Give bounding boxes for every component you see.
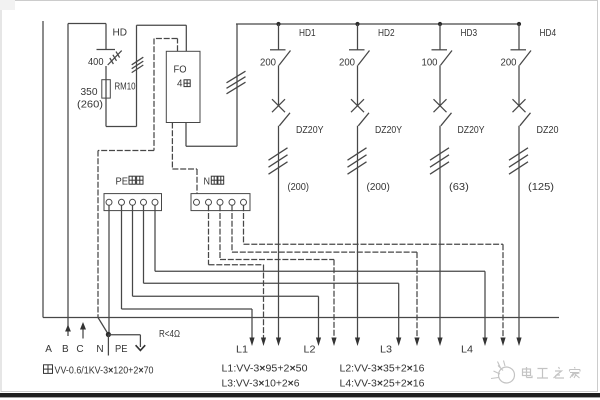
- svg-text:L1:VV-3×95+2×50: L1:VV-3×95+2×50: [222, 363, 308, 374]
- svg-text:4: 4: [177, 78, 183, 89]
- label A: [45, 344, 52, 355]
- terminal block PE busbar: [104, 194, 162, 211]
- svg-text:A: A: [45, 344, 52, 355]
- arrowhead incoming feed on phase riser: [65, 325, 71, 332]
- label DZ20Y: [296, 125, 324, 136]
- fuse RM10 body: [102, 80, 111, 98]
- wire PE conductor to L4: [155, 205, 485, 340]
- bottom separator bar: [0, 393, 600, 397]
- node bus junction HD3: [438, 22, 442, 26]
- svg-text:N: N: [204, 176, 211, 187]
- label 4#: [177, 78, 190, 89]
- svg-text:(125): (125): [528, 182, 554, 193]
- label DZ20: [537, 125, 559, 136]
- svg-text:L2:VV-3×35+2×16: L2:VV-3×35+2×16: [340, 363, 425, 374]
- label HD3: [461, 28, 478, 39]
- label L3: [380, 345, 392, 356]
- switch HD4 upper lead: [518, 24, 520, 50]
- arrowhead load phase L4: [516, 338, 521, 347]
- label 200 current: [339, 58, 355, 69]
- wire N conductor to L2: [220, 205, 334, 340]
- svg-text:(200): (200): [288, 182, 310, 193]
- 3-phase marks HD1 feeder: [269, 148, 288, 174]
- label (260): [77, 99, 103, 110]
- arrowhead N L2: [331, 338, 336, 347]
- ground arrowhead: [136, 345, 146, 350]
- meter box FO 4#: [166, 51, 200, 122]
- wire bottom horizontal run: [43, 317, 559, 319]
- wire HD2 load feeder: [357, 126, 359, 340]
- svg-text:(260): (260): [77, 99, 103, 110]
- svg-text:L2: L2: [304, 345, 316, 356]
- wire PE conductor to L3: [144, 205, 399, 340]
- svg-text:HD: HD: [113, 28, 128, 39]
- svg-text:N: N: [96, 344, 103, 355]
- switch HD1 fixed contact: [270, 49, 286, 51]
- wire N conductor to L1: [209, 205, 264, 340]
- 3-phase marks HD3 feeder: [430, 148, 449, 174]
- label HD2: [378, 28, 395, 39]
- wire neutral bond diagonal: [98, 318, 108, 335]
- arrowhead PE L1: [249, 338, 254, 347]
- breaker DZ20Y blade: [441, 113, 452, 126]
- label L3 cable spec: [222, 378, 300, 389]
- switch HD 400A blade: [108, 51, 122, 65]
- switch HD4 fixed contact: [511, 49, 527, 51]
- label 350: [81, 87, 98, 98]
- node N-PE bond: [106, 332, 111, 337]
- arrowhead PE L2: [316, 338, 321, 347]
- switch HD1 blade: [279, 51, 291, 66]
- label HD: [113, 28, 128, 39]
- svg-text:DZ20Y: DZ20Y: [375, 125, 402, 136]
- svg-text:L4: L4: [461, 345, 473, 356]
- svg-text:B: B: [62, 344, 69, 355]
- wire HD2 switch to breaker: [357, 65, 359, 106]
- arrowhead load phase L3: [437, 338, 442, 347]
- watermark text: [523, 367, 581, 378]
- node bus junction HD2: [355, 22, 359, 26]
- svg-text:FO: FO: [174, 65, 187, 76]
- wire riser to bus: [236, 24, 238, 146]
- label L1 cable spec: [222, 363, 308, 374]
- svg-text:DZ20Y: DZ20Y: [458, 125, 485, 136]
- switch HD 400A fixed contact: [97, 49, 116, 51]
- wire N conductor to L3: [232, 205, 417, 340]
- wire top link to FO: [137, 25, 187, 51]
- terminal block N busbar: [191, 194, 250, 211]
- label N busbar: [204, 176, 224, 187]
- wire bond to cable N: [107, 335, 109, 356]
- svg-text:PE: PE: [116, 176, 129, 187]
- switch HD 400A 3-pole ticks: [110, 52, 120, 64]
- wire fuse bottom to corner: [106, 98, 137, 126]
- breaker DZ20 contact cross: [513, 99, 526, 112]
- wire switch to fuse: [105, 66, 107, 80]
- wire neutral dashed down to bond: [97, 151, 99, 318]
- label RM10: [115, 82, 136, 93]
- switch HD 400A upper lead: [105, 24, 107, 50]
- svg-text:(200): (200): [367, 182, 390, 193]
- label (200) trip rating: [288, 182, 310, 193]
- svg-text:R<4Ω: R<4Ω: [159, 329, 180, 340]
- label (200) trip rating: [367, 182, 390, 193]
- arrow incoming supply direction: [80, 322, 86, 339]
- svg-text:C: C: [76, 344, 83, 355]
- arrowhead PE L3: [396, 338, 401, 347]
- wire riser to top link: [136, 25, 138, 126]
- svg-text:HD1: HD1: [299, 28, 316, 39]
- breaker DZ20Y blade: [358, 113, 369, 126]
- label incoming cable spec: [44, 365, 154, 377]
- arrowhead PE L4: [482, 338, 487, 347]
- switch HD2 upper lead: [357, 24, 359, 50]
- wire N conductor to L4: [244, 205, 504, 340]
- 3-phase marks HD4 feeder: [509, 148, 528, 174]
- wire PE t1 to earth bond: [108, 205, 110, 334]
- node bus junction HD1: [276, 22, 280, 26]
- label HD1: [299, 28, 316, 39]
- switch HD2 fixed contact: [349, 49, 365, 51]
- svg-text:DZ20: DZ20: [537, 125, 559, 136]
- wire incoming phase riser: [68, 24, 106, 337]
- label L2: [304, 345, 316, 356]
- breaker DZ20Y blade: [279, 113, 290, 126]
- label (125) trip rating: [528, 182, 554, 193]
- svg-text:L4:VV-3×25+2×16: L4:VV-3×25+2×16: [340, 378, 425, 389]
- switch HD3 upper lead: [439, 24, 441, 50]
- arrowhead N L1: [261, 338, 266, 347]
- svg-text:200: 200: [339, 58, 355, 69]
- wire HD3 load feeder: [439, 126, 441, 340]
- switch HD2 blade: [358, 51, 370, 66]
- label N: [96, 344, 103, 355]
- switch HD3 fixed contact: [432, 49, 448, 51]
- svg-text:RM10: RM10: [115, 82, 136, 93]
- svg-text:HD4: HD4: [540, 28, 557, 39]
- svg-text:VV-0.6/1KV-3×120+2×70: VV-0.6/1KV-3×120+2×70: [55, 365, 154, 376]
- arrowhead N L3: [414, 338, 419, 347]
- wire neutral dashed FO top link: [154, 39, 178, 52]
- 3-phase marks on bus riser: [227, 71, 246, 94]
- label L4: [461, 345, 473, 356]
- label L1: [236, 345, 248, 356]
- 3-phase marks HD2 feeder: [348, 148, 367, 174]
- switch HD3 blade: [441, 51, 453, 66]
- breaker DZ20Y contact cross: [272, 99, 285, 112]
- watermark logo: [491, 361, 515, 384]
- label L4 cable spec: [340, 378, 425, 389]
- label 400: [88, 57, 104, 68]
- wire neutral dashed left riser: [98, 39, 154, 151]
- breaker DZ20Y contact cross: [351, 99, 364, 112]
- svg-text:DZ20Y: DZ20Y: [296, 125, 324, 136]
- wire PE conductor to L1: [122, 205, 253, 340]
- 3-phase marks on riser: [132, 57, 144, 72]
- wire incoming PE riser (left vertical): [42, 21, 44, 318]
- label 200 current: [501, 58, 517, 69]
- wire neutral dashed FO bottom to N bar: [172, 123, 197, 200]
- label FO: [174, 65, 187, 76]
- wire bond to earth electrode: [108, 335, 140, 347]
- svg-text:200: 200: [501, 58, 517, 69]
- svg-text:400: 400: [88, 57, 104, 68]
- node bus junction HD4: [517, 22, 521, 26]
- breaker DZ20Y contact cross: [434, 99, 447, 112]
- switch HD4 blade: [520, 51, 532, 66]
- label L2 cable spec: [340, 363, 425, 374]
- wire PE conductor to L2: [133, 205, 319, 340]
- label (63) trip rating: [449, 182, 469, 193]
- arrowhead N L4: [500, 338, 505, 347]
- label R<4 ohm: [159, 329, 180, 340]
- arrowhead load phase L2: [355, 338, 360, 347]
- breaker DZ20 blade: [520, 113, 531, 126]
- svg-text:350: 350: [81, 87, 98, 98]
- wire HD4 load feeder: [518, 126, 520, 340]
- label 100 current: [422, 58, 438, 69]
- label 200 current: [260, 58, 276, 69]
- bus main horizontal: [236, 23, 520, 25]
- label DZ20Y: [458, 125, 485, 136]
- wire HD1 switch to breaker: [278, 65, 280, 106]
- svg-text:PE: PE: [115, 344, 128, 355]
- label DZ20Y: [375, 125, 402, 136]
- svg-text:200: 200: [260, 58, 276, 69]
- wire HD4 switch to breaker: [518, 65, 520, 106]
- svg-text:HD3: HD3: [461, 28, 478, 39]
- switch HD1 upper lead: [278, 24, 280, 50]
- svg-text:L3: L3: [380, 345, 392, 356]
- svg-text:L1: L1: [236, 345, 248, 356]
- svg-text:L3:VV-3×10+2×6: L3:VV-3×10+2×6: [222, 378, 300, 389]
- label B: [62, 344, 69, 355]
- label PE busbar: [116, 176, 144, 187]
- wire HD3 switch to breaker: [439, 65, 441, 106]
- arrowhead load phase L1: [276, 338, 281, 347]
- svg-text:100: 100: [422, 58, 438, 69]
- wire HD1 load feeder: [278, 126, 280, 340]
- label C: [76, 344, 83, 355]
- svg-text:HD2: HD2: [378, 28, 395, 39]
- svg-text:(63): (63): [449, 182, 469, 193]
- label HD4: [540, 28, 557, 39]
- label PE: [115, 344, 128, 355]
- wire FO output down: [186, 123, 237, 147]
